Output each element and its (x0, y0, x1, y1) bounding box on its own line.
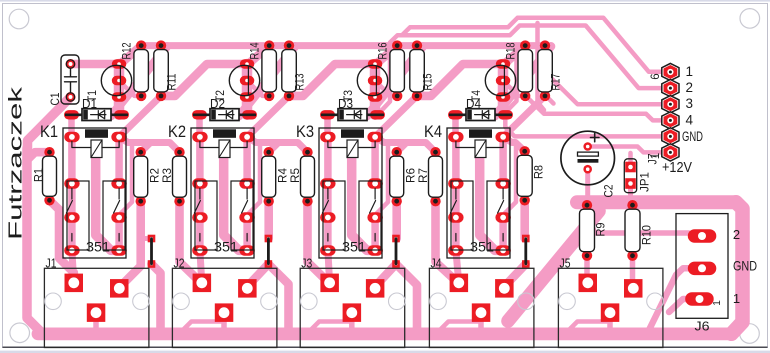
transistor T3 outline (357, 65, 387, 95)
connector J3 holes (301, 293, 318, 310)
relay K1 pads (64, 132, 80, 143)
svg-text:R14: R14 (249, 42, 262, 59)
relay K1 pole outlines (67, 181, 89, 250)
resistor R14 pads (264, 40, 274, 50)
relay K3 pads (320, 132, 336, 143)
diode D1 outline (82, 109, 111, 121)
wire channel3 T-mid to R12-bottom (375, 81, 397, 96)
wire channel3 relay TR diagonal to R-right-bottom (375, 96, 417, 137)
wire channel4 relay center vertical (480, 157, 503, 250)
svg-text:GND: GND (733, 259, 757, 274)
svg-text:K2: K2 (168, 122, 186, 141)
svg-text:1: 1 (650, 153, 662, 159)
svg-text:R2: R2 (150, 168, 162, 183)
svg-text:K1: K1 (40, 122, 58, 141)
resistor R16 pads (392, 40, 402, 50)
wire channel3 R-bottom to next T-top (417, 64, 504, 96)
resistor R18 pads (520, 40, 530, 50)
svg-text:R5: R5 (290, 168, 302, 183)
relay K4 outline (447, 128, 510, 258)
jumper wire 3 (395, 239, 398, 265)
wire channel2 relay center vertical (224, 157, 247, 250)
svg-text:R8: R8 (534, 165, 546, 179)
wire trace to J6 pad GND (648, 268, 693, 332)
svg-text:351: 351 (86, 240, 110, 255)
wire channel1 T pads vertical (114, 64, 125, 115)
capacitor C1 pads (66, 59, 76, 69)
wire channel3 R-even bottom to jumper (392, 201, 401, 238)
wire channel1 relay right column lower (115, 218, 123, 251)
connector J3 pads (320, 274, 339, 293)
resistor R12 pads (136, 40, 146, 50)
connector J2 holes (173, 293, 190, 310)
capacitor C2 pads (583, 142, 592, 151)
transistor T4 outline (485, 65, 515, 95)
svg-text:3: 3 (686, 96, 694, 111)
wire channel3 jumper bottom to GND bus (396, 264, 417, 331)
wire channel1 T-top feed y64 (71, 60, 121, 69)
wire channel1 R-bottom to next T-top (161, 64, 248, 96)
wire trace to J6 pad 2 (583, 208, 689, 233)
svg-text:2: 2 (686, 80, 694, 95)
svg-text:351: 351 (214, 240, 238, 255)
svg-text:C2: C2 (602, 184, 616, 197)
window edge strip top (0, 0, 770, 2)
wire channel2 diode diagonal to top bus (239, 46, 295, 116)
svg-text:2: 2 (733, 227, 740, 242)
wire channel4 T pads vertical (498, 64, 509, 115)
connector J1 outline (44, 268, 148, 347)
svg-text:R10: R10 (642, 225, 654, 245)
relay K2 pole outlines (195, 181, 217, 250)
wire C2 bottom stub (585, 169, 590, 200)
relay K3 pole outlines (323, 181, 345, 250)
jumper wire 1 (150, 239, 153, 265)
jumper wire 4 (524, 239, 527, 265)
wire channel4 T-top to R-top diagonal (504, 46, 525, 64)
wire channel3 relay left column (324, 137, 332, 251)
relay K3 outline (319, 128, 382, 258)
jumper wire 2 pads (265, 235, 273, 243)
relay K1 outline (63, 128, 126, 258)
wire vertical behind R17 (538, 23, 545, 110)
transistor T2 outline (229, 65, 259, 95)
wire channel3 diode-left to relay coil (324, 115, 331, 136)
wire channel4 top bus segment (525, 42, 546, 49)
wire +12V power band (577, 195, 736, 209)
wire GND pin trace (505, 115, 662, 137)
wire bus pin2 from channel3 diode (378, 26, 663, 115)
resistor outlines channel1 (43, 156, 57, 196)
svg-text:R18: R18 (505, 43, 518, 60)
mounting hole bottom-right (740, 324, 760, 344)
wire R9 bottom to J5 pad A (584, 256, 590, 284)
wire channel1 relay row1 band to R-pair tops (119, 137, 179, 152)
svg-text:D2: D2 (210, 97, 225, 111)
wire channel4 relay left column (452, 137, 460, 251)
wire channel2 T pads vertical (242, 64, 253, 115)
wire J5 GND bracket (569, 322, 610, 330)
svg-text:JP1: JP1 (640, 172, 652, 192)
connector J4 outline (429, 268, 534, 347)
wire channel1 diode-left to relay coil (68, 115, 75, 136)
wire channel1 T-mid to R12-bottom (119, 81, 141, 96)
wire channel2 relay right column upper (243, 137, 251, 184)
header J7 pads (662, 63, 679, 80)
wire +12V pin trace from C2 (588, 147, 662, 153)
wire channel4 R-even bottom to jumper (520, 201, 529, 238)
wire channel4 T-mid to R12-bottom (503, 81, 525, 96)
svg-text:1: 1 (686, 64, 694, 79)
wire channel3 diode diagonal to top bus (367, 46, 423, 116)
wire channel2 T-top to R-top diagonal (248, 46, 269, 64)
wire channel4 relay TR diagonal to R-right-bottom (503, 96, 545, 137)
svg-text:J6: J6 (695, 319, 710, 334)
wire channel4 relay row1 band to R-pair tops (503, 137, 525, 151)
svg-text:4: 4 (686, 112, 694, 127)
wire channel4 351 left pad down to J pad A (456, 250, 459, 283)
svg-text:J5: J5 (560, 256, 571, 271)
wire channel3 T-top to R-top diagonal (376, 46, 397, 64)
wire J5 pad C stub (607, 313, 613, 330)
diode D2 outline (210, 109, 239, 121)
wire J2 pad C stub (221, 313, 227, 330)
wire channel2 relay row1 band to R-pair tops (247, 137, 307, 152)
wire channel1 row1 band to row3-right feed (119, 144, 132, 216)
transistor T3 pads (368, 59, 383, 68)
svg-text:6: 6 (650, 73, 662, 79)
relay K4 pole outlines (451, 181, 473, 250)
wire J4 GND bracket (440, 322, 481, 330)
wire channel2 jumper bottom to GND bus (268, 264, 288, 331)
diode D1 pads (64, 110, 79, 119)
wire bus pin3 from R17 top (546, 46, 662, 104)
connector J5 holes (559, 293, 576, 310)
wire channel2 351 left pad down to J pad A (200, 250, 202, 283)
jumper JP1 outline (624, 159, 636, 193)
svg-text:J2: J2 (174, 256, 185, 271)
svg-text:D3: D3 (338, 97, 353, 111)
wire channel2 R-even bottom to jumper (264, 201, 273, 238)
wire channel2 relay TR diagonal to R-right-bottom (247, 96, 289, 137)
jumper wire 3 pads (392, 235, 400, 243)
wire channel3 top bus segment (397, 42, 525, 49)
wire channel4 diode diagonal to top bus (495, 46, 551, 116)
resistor outlines channel4 (518, 50, 533, 92)
transistor T1 pads (112, 59, 127, 68)
wire J3 pad C stub (349, 313, 355, 330)
wire channel1 relay right column upper (115, 137, 123, 184)
connector J1 pads (65, 274, 84, 293)
wire channel4 row1 band to row3-right feed (503, 144, 516, 216)
svg-text:R9: R9 (596, 223, 608, 237)
wire channel4 relay right column lower (499, 218, 507, 251)
svg-text:R17: R17 (550, 74, 563, 91)
svg-text:GND: GND (682, 129, 703, 144)
wire channel1 relay left column (68, 137, 76, 251)
wire channel3 relay row1 band to R-pair tops (375, 137, 435, 152)
wire R1 top feed (27, 152, 50, 160)
wire GND bottom bus (27, 148, 41, 332)
wire channel2 T-mid to R12-bottom (247, 81, 269, 96)
relay K2 pads (192, 132, 208, 143)
svg-text:R7: R7 (418, 168, 430, 183)
svg-text:R12: R12 (121, 43, 134, 60)
connector J5 outline (558, 268, 663, 347)
wire jumper stub (141, 236, 152, 241)
wire bus pin1 (402, 18, 662, 72)
wire bus pin4 from R18 bottom (526, 96, 662, 121)
wire channel3 relay center vertical (352, 157, 375, 250)
wire J4 pad C stub (478, 313, 484, 330)
wire channel4 jumper bottom to J pad B (504, 264, 526, 287)
transistor T2 pads (240, 59, 255, 68)
svg-text:K4: K4 (424, 122, 442, 141)
capacitor C1 outline (61, 55, 79, 104)
wire R1 bottom to J1 pad A (50, 200, 74, 283)
mounting hole bottom-left (10, 323, 30, 343)
resistor R10 outline (625, 209, 640, 252)
resistor R10 pads (627, 200, 637, 210)
capacitor C2 outline (561, 131, 615, 185)
wire R10 bottom to J5 pad B (630, 256, 636, 288)
window edge strip bottom (0, 351, 770, 353)
svg-text:R4: R4 (278, 167, 290, 183)
wire channel3 R-odd bottom to next J pad A (436, 201, 459, 283)
connector J2 pads (193, 274, 212, 293)
svg-text:1: 1 (712, 300, 723, 306)
wire channel3 T pads vertical (370, 64, 381, 115)
resistor outlines channel2 (262, 50, 277, 92)
svg-text:1: 1 (733, 291, 740, 306)
wire JP1 top stub (628, 153, 633, 167)
diode D4 outline (466, 109, 495, 121)
mid resistor pads channel2 (264, 147, 274, 157)
wire J2 GND bracket (183, 322, 224, 330)
svg-text:R16: R16 (377, 43, 390, 60)
wire channel3 relay right column lower (371, 218, 379, 251)
svg-text:R6: R6 (406, 168, 418, 183)
wire channel2 relay right column lower (243, 218, 251, 251)
diode D3 outline (338, 109, 367, 121)
wire J3 GND bracket (311, 322, 352, 330)
connector J2 outline (172, 268, 277, 347)
svg-text:R11: R11 (166, 74, 179, 91)
wire J6 pour right side (732, 202, 743, 333)
wire channel1 R-odd bottom to next J pad A (180, 201, 202, 283)
svg-text:D1: D1 (82, 97, 97, 111)
svg-text:+12V: +12V (662, 160, 692, 176)
svg-text:D4: D4 (466, 97, 481, 111)
svg-text:R3: R3 (162, 168, 174, 183)
connector J1 holes (45, 293, 62, 310)
wire channel2 row1 band to row3-right feed (247, 144, 260, 216)
jumper JP1 pads (625, 162, 636, 173)
mounting hole top-right (740, 9, 760, 29)
relay K2 outline (191, 128, 254, 258)
wire channel1 diode diagonal to top bus (111, 46, 167, 116)
jumper wire 2 (267, 239, 270, 265)
wire channel2 diode-left to relay coil (196, 115, 203, 136)
jumper wire 4 pads (522, 235, 530, 243)
wire channel3 jumper bottom to J pad B (375, 264, 396, 287)
svg-text:R13: R13 (294, 74, 307, 91)
diode D4 pads (448, 110, 463, 119)
wire channel1 relay TR diagonal to R-right-bottom (119, 96, 161, 137)
wire pour diagonal to bottom bus (508, 211, 599, 321)
connector J6 pads (688, 229, 717, 243)
wire channel2 top bus segment (269, 42, 397, 49)
wire jumper bottom to GND bus (152, 264, 161, 331)
connector J4 pads (450, 274, 469, 293)
wire channel1 351 left pad down to J pad A (72, 250, 74, 283)
wire channel3 row1 band to row3-right feed (375, 144, 388, 216)
wire channel1 relay center vertical (96, 157, 119, 250)
svg-text:J3: J3 (301, 256, 312, 271)
wire channel3 relay right column upper (371, 137, 379, 184)
wire channel2 R-odd bottom to next J pad A (308, 201, 330, 283)
wire vertical behind R18 (505, 48, 516, 113)
svg-text:Futrzaczek: Futrzaczek (5, 86, 26, 240)
svg-text:351: 351 (342, 240, 366, 255)
mid resistor pads channel1 (44, 147, 54, 157)
wire J1 pad C stub (93, 313, 99, 330)
svg-text:R1: R1 (34, 168, 46, 182)
resistor R9 pads (582, 200, 592, 210)
wire channel2 relay left column (196, 137, 204, 251)
wire channel3 351 left pad down to J pad A (328, 250, 330, 283)
svg-text:R15: R15 (422, 73, 435, 90)
connector J6 outline (676, 214, 728, 319)
wire channel2 R-bottom to next T-top (289, 64, 376, 96)
wire JP1 bottom stub (628, 184, 633, 200)
wire trace to J6 pad 1 (669, 299, 690, 312)
svg-text:C1: C1 (48, 92, 62, 105)
wire channel1 T-top to R-top diagonal (120, 46, 141, 64)
wire channel4 relay right column upper (499, 137, 507, 184)
mid resistor pads channel4 (520, 146, 530, 156)
relay K4 pads (448, 132, 464, 143)
diode D3 pads (320, 110, 335, 119)
transistor T1 outline (101, 65, 131, 95)
wire channel4 diode-left to relay coil (452, 115, 459, 136)
svg-text:J1: J1 (46, 256, 57, 271)
mid resistor pads channel3 (392, 147, 402, 157)
svg-text:J4: J4 (431, 256, 442, 271)
connector J4 holes (430, 293, 447, 310)
resistor R9 outline (580, 209, 595, 252)
svg-text:K3: K3 (296, 122, 314, 141)
wire channel2 jumper bottom to J pad B (247, 264, 268, 287)
wire R2 bottom vertical to J1 pad B (119, 201, 140, 287)
connector J5 pads (579, 274, 598, 293)
svg-text:351: 351 (470, 240, 494, 255)
connector J3 outline (300, 268, 405, 347)
transistor T4 pads (496, 59, 511, 68)
jumper wire 1 pads (148, 235, 156, 243)
mounting hole top-left (9, 9, 29, 29)
resistor outlines channel3 (390, 50, 405, 92)
wire channel1 top bus segment (141, 42, 269, 49)
diode D2 pads (192, 110, 207, 119)
